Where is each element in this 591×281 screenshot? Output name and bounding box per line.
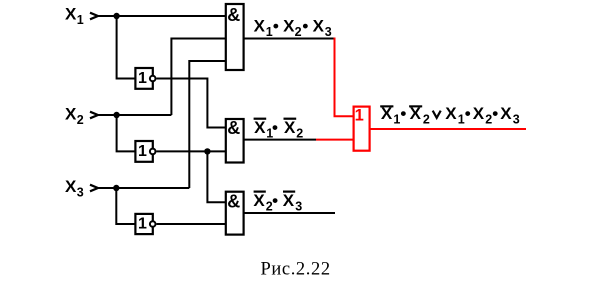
input arrow X2: [90, 112, 98, 119]
label X̄2·X̄3: [253, 191, 302, 214]
node X̄2 junction: [204, 148, 210, 154]
AND gate U3 (X̄2·X̄3): [226, 191, 244, 234]
svg-text:3: 3: [325, 25, 332, 39]
node X2 junction: [113, 112, 119, 118]
wire NOT2 output (X̄2): [157, 150, 227, 152]
svg-text:X: X: [65, 177, 77, 196]
svg-text:2: 2: [423, 113, 430, 127]
svg-text:X: X: [284, 118, 296, 137]
AND gate U2 (X̄1·X̄2): [226, 118, 244, 163]
node X1 junction: [113, 13, 119, 19]
svg-text:2: 2: [296, 127, 303, 141]
svg-text:&: &: [227, 118, 240, 138]
wire X2 down to NOT2: [117, 115, 135, 151]
svg-text:1: 1: [458, 113, 465, 127]
svg-text:X: X: [500, 104, 512, 123]
wire NOT1 output (X̄1): [157, 79, 227, 128]
input arrow X3: [90, 185, 98, 192]
wire X3 riser to AND1: [189, 61, 226, 188]
svg-text:X: X: [65, 105, 77, 124]
svg-text:X: X: [254, 118, 266, 137]
svg-text:X: X: [473, 104, 485, 123]
label X̄1·X̄2 ∨ X1·X2·X3: [380, 104, 520, 127]
node X3 junction: [113, 185, 119, 191]
svg-text:X: X: [65, 5, 77, 24]
wire X1 down to NOT1: [117, 16, 135, 79]
wire X2 riser to AND1: [171, 39, 226, 116]
wire AND2 output red part: [316, 139, 355, 141]
svg-text:•: •: [465, 104, 471, 123]
svg-text:•: •: [302, 16, 308, 35]
OR gate U4 (red): [354, 107, 370, 151]
svg-text:2: 2: [295, 25, 302, 39]
svg-text:X: X: [313, 16, 325, 35]
svg-text:3: 3: [295, 199, 302, 213]
AND gate U1 (X1·X2·X3): [226, 4, 244, 70]
wire X3 input: [98, 187, 189, 189]
input label X1: [65, 5, 84, 28]
svg-text:1: 1: [266, 25, 273, 39]
NOT gate DD3 (inverter for X3): [135, 214, 155, 234]
svg-text:1: 1: [77, 13, 84, 27]
svg-text:2: 2: [77, 113, 84, 127]
svg-text:X: X: [283, 191, 295, 210]
svg-text:X: X: [253, 191, 265, 210]
wire NOT3 output (X̄3): [157, 223, 227, 225]
svg-text:•: •: [272, 118, 278, 137]
wire OR output: [370, 128, 526, 130]
svg-text:•: •: [492, 104, 498, 123]
svg-text:X: X: [445, 104, 457, 123]
svg-text:1: 1: [355, 107, 364, 125]
wire X3 down to NOT3: [116, 188, 134, 224]
svg-text:X: X: [381, 104, 393, 123]
wire AND2 output black part: [243, 139, 316, 141]
wire X1 input: [98, 15, 227, 17]
svg-text:1: 1: [138, 70, 147, 87]
svg-text:•: •: [272, 191, 278, 210]
svg-text:1: 1: [393, 113, 400, 127]
label X̄1·X̄2: [254, 118, 304, 141]
svg-text:X: X: [254, 16, 266, 35]
svg-text:•: •: [273, 16, 279, 35]
svg-text:X: X: [410, 104, 422, 123]
wire red from AND1 to OR: [335, 38, 355, 117]
svg-text:3: 3: [77, 185, 84, 199]
svg-text:•: •: [400, 104, 406, 123]
wire AND3 output: [243, 212, 335, 214]
NOT gate DD1 (inverter for X1): [135, 68, 155, 89]
label X1·X2·X3: [254, 16, 332, 39]
svg-text:3: 3: [513, 113, 520, 127]
svg-text:1: 1: [138, 216, 147, 233]
wire X̄2 down to AND3: [207, 151, 226, 202]
svg-text:1: 1: [138, 143, 147, 160]
input label X3: [65, 177, 84, 200]
input arrow X1: [90, 13, 98, 20]
wire AND1 output: [243, 38, 335, 40]
svg-text:Рис.2.22: Рис.2.22: [261, 260, 331, 280]
NOT gate DD2 (inverter for X2): [135, 141, 155, 162]
svg-text:X: X: [283, 16, 295, 35]
wire X2 input: [98, 114, 171, 116]
svg-text:&: &: [227, 191, 240, 211]
input label X2: [65, 105, 84, 128]
svg-text:2: 2: [485, 113, 492, 127]
svg-text:&: &: [227, 5, 240, 25]
